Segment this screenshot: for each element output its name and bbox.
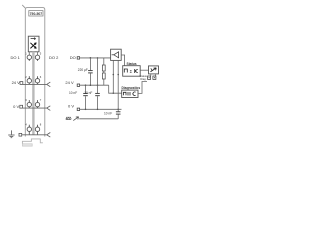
junction dots on 24V rail — [85, 84, 99, 86]
LED indicator diag — [153, 76, 156, 79]
module body outline — [25, 8, 45, 137]
svg-text:Status: Status — [127, 62, 137, 66]
24V field wire — [23, 83, 47, 85]
0V contact square — [20, 105, 23, 108]
label 0V (schematic) — [68, 104, 74, 109]
terminal 0V left circle — [27, 100, 31, 108]
driver lead A — [113, 60, 115, 94]
resistor R1 — [102, 65, 105, 71]
label DO 1 — [10, 55, 20, 60]
wire status to bus — [140, 69, 148, 71]
svg-text:24 V: 24 V — [65, 80, 74, 85]
driver lead B — [117, 60, 119, 109]
function icon box — [28, 36, 39, 52]
24V feed to diagnostics — [109, 85, 122, 93]
label 10nF bottom — [104, 112, 112, 116]
LED indicator status — [148, 76, 151, 79]
svg-text:Σ: Σ — [130, 69, 133, 74]
label Diagnostics — [122, 86, 141, 90]
driver op-amp box — [111, 49, 122, 60]
terminal numbers row3 — [25, 98, 42, 102]
capacitor C3 plates — [83, 93, 88, 95]
0V rail wire — [80, 108, 122, 110]
earth terminal right circle — [35, 125, 39, 135]
label 0V — [13, 104, 19, 109]
capacitor C1 plates — [88, 71, 93, 73]
diag glyph 1 — [124, 92, 127, 95]
earth field wire — [22, 134, 47, 136]
24V jumper fork — [47, 82, 51, 87]
terminal DO2 circle — [35, 55, 39, 61]
rail contact symbol — [66, 117, 72, 119]
terminal 0V right circle — [35, 100, 39, 108]
resistor chain vertical — [103, 58, 105, 85]
resistor R2 — [102, 73, 105, 79]
icon arrow — [31, 38, 36, 40]
svg-text:10 nF: 10 nF — [104, 112, 112, 116]
junction dot DO C1 — [90, 57, 92, 59]
leads from icon box to terminals — [29, 52, 37, 55]
DO terminal contact — [77, 57, 79, 59]
terminal numbers row1 — [25, 52, 42, 56]
0V field wire — [23, 107, 47, 109]
label 24V — [12, 80, 21, 85]
svg-text:24 V: 24 V — [12, 80, 21, 85]
label 220uF — [78, 68, 88, 72]
terminal numbers row2 — [25, 75, 42, 79]
24V rail wire — [80, 84, 109, 86]
label Diag small — [140, 77, 146, 81]
label Status — [127, 62, 137, 66]
terminal DO1 circle — [27, 55, 31, 61]
earth terminal left circle — [27, 125, 31, 135]
bus interface box — [149, 66, 159, 74]
status glyph sigma — [130, 69, 133, 74]
label 10nF mid — [84, 91, 92, 95]
capacitor C5 plates — [116, 112, 121, 114]
svg-text:Diag.: Diag. — [140, 77, 146, 81]
diagnostics output wire — [138, 82, 147, 94]
24V terminal contact — [77, 84, 79, 86]
terminal 24V right circle — [35, 76, 39, 84]
svg-text:0 V: 0 V — [13, 104, 19, 109]
chassis jumper arrow — [73, 117, 78, 121]
0V jumper fork — [47, 106, 51, 111]
diag glyph 3 — [133, 92, 136, 96]
label Status small — [140, 74, 148, 78]
earth symbol — [8, 130, 14, 137]
0V terminal contact — [77, 108, 79, 110]
svg-text:Diagnostics: Diagnostics — [122, 86, 141, 90]
capacitor C4 plates — [95, 93, 100, 95]
terminal numbers row4 — [25, 122, 42, 126]
terminal 24V left circle — [27, 76, 31, 84]
svg-text:220 µF: 220 µF — [78, 68, 88, 72]
diagnostics box — [122, 90, 138, 97]
earth rail wire — [79, 118, 118, 120]
driver output wire to status — [121, 55, 124, 66]
internal contact strip — [32, 52, 34, 135]
label DO 2 — [49, 55, 59, 60]
label 10nF left — [69, 91, 77, 95]
label box 750-507 — [29, 11, 43, 16]
label 24V (schematic) — [65, 80, 74, 85]
DIN rail foot lip — [22, 144, 32, 146]
junction dot DO C2 — [97, 57, 99, 59]
diag glyph 2 — [128, 92, 130, 96]
label DO (schematic) — [70, 55, 76, 60]
DO rail wire — [80, 57, 111, 59]
DIN rail foot profile — [22, 139, 43, 144]
release lever — [22, 5, 25, 8]
capacitor C1 220uF vertical — [89, 58, 91, 85]
capacitor C4 10nF vertical — [97, 58, 99, 109]
svg-text:DO 2: DO 2 — [49, 55, 59, 60]
earth jumper fork — [47, 133, 51, 138]
status glyph LED — [135, 69, 138, 73]
capacitor C5 10nF to earth — [117, 109, 119, 119]
svg-text:DO 1: DO 1 — [10, 55, 20, 60]
status glyph square-wave — [124, 69, 127, 73]
status box — [123, 66, 141, 77]
svg-text:DO: DO — [70, 55, 76, 60]
svg-text:10 nF: 10 nF — [69, 91, 77, 95]
svg-text:750-507: 750-507 — [30, 12, 43, 16]
icon crossed output arrows — [30, 42, 36, 48]
earth contact square — [19, 133, 22, 136]
bus box legs — [151, 74, 156, 76]
driver triangle — [112, 52, 119, 58]
capacitor C3 10nF vertical — [85, 85, 87, 109]
svg-text:10 nF: 10 nF — [84, 91, 92, 95]
svg-text:0 V: 0 V — [68, 104, 74, 109]
junction dots on 0V rail — [85, 109, 119, 111]
bus arrow glyph — [151, 68, 157, 72]
24V contact square — [20, 82, 23, 85]
